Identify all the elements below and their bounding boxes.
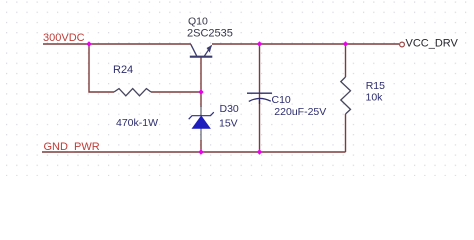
transistor Q10 2SC2535	[190, 44, 213, 56]
wire top rail right (Q10 emitter to VCC_DRV)	[212, 43, 399, 45]
zener diode D30 cathode pin	[200, 106, 202, 116]
resistor R24 zigzag	[114, 89, 151, 96]
wire R24 branch from 300VDC down and right	[89, 44, 114, 92]
node junction C10 / ground rail	[257, 149, 262, 154]
svg-text:VCC_DRV: VCC_DRV	[406, 37, 459, 49]
node junction top rail / C10	[257, 41, 262, 46]
wire R15 bottom lead	[345, 114, 347, 152]
wire Q10 base down to node	[200, 57, 202, 92]
wire ground rail GND_PWR	[42, 151, 346, 153]
capacitor C10 curved bottom plate	[249, 98, 271, 101]
svg-text:R15: R15	[366, 80, 385, 92]
node junction 300VDC / R24	[86, 41, 91, 46]
wire R15 top lead	[345, 44, 347, 77]
capacitor C10 top plate	[247, 92, 272, 94]
zener diode D30 anode pin	[200, 128, 202, 141]
wire R24 right lead to base node	[151, 91, 201, 93]
zener diode D30 anode triangle	[192, 116, 210, 129]
svg-text:C10: C10	[272, 94, 291, 106]
node junction D30 / ground rail	[198, 149, 203, 154]
zener diode D30 cathode bar with hooks	[189, 112, 214, 119]
svg-text:Q10: Q10	[188, 15, 208, 27]
svg-text:D30: D30	[220, 103, 239, 115]
resistor R15 zigzag	[341, 77, 351, 114]
VCC_DRV terminal circle	[400, 42, 405, 47]
svg-text:300VDC: 300VDC	[43, 32, 85, 44]
wire base node down to D30 pin	[200, 92, 202, 107]
wire C10 top lead	[259, 44, 261, 98]
wire C10 bottom lead	[259, 100, 261, 152]
transistor Q10 emitter arrow	[207, 45, 212, 53]
svg-text:2SC2535: 2SC2535	[187, 27, 233, 39]
svg-text:15V: 15V	[219, 118, 238, 130]
capacitor C10 bottom pin stub	[259, 98, 261, 104]
svg-text:R24: R24	[113, 64, 133, 76]
wire top rail left (300VDC to Q10 collector)	[43, 43, 191, 45]
svg-text:470k-1W: 470k-1W	[116, 117, 158, 129]
svg-text:GND_PWR: GND_PWR	[44, 141, 100, 153]
wire D30 pin down to ground rail	[200, 140, 202, 152]
svg-text:10k: 10k	[366, 92, 384, 104]
node junction top rail / R15	[343, 41, 348, 46]
svg-text:220uF-25V: 220uF-25V	[274, 106, 326, 118]
node junction R24 / Q10 base	[198, 89, 203, 94]
